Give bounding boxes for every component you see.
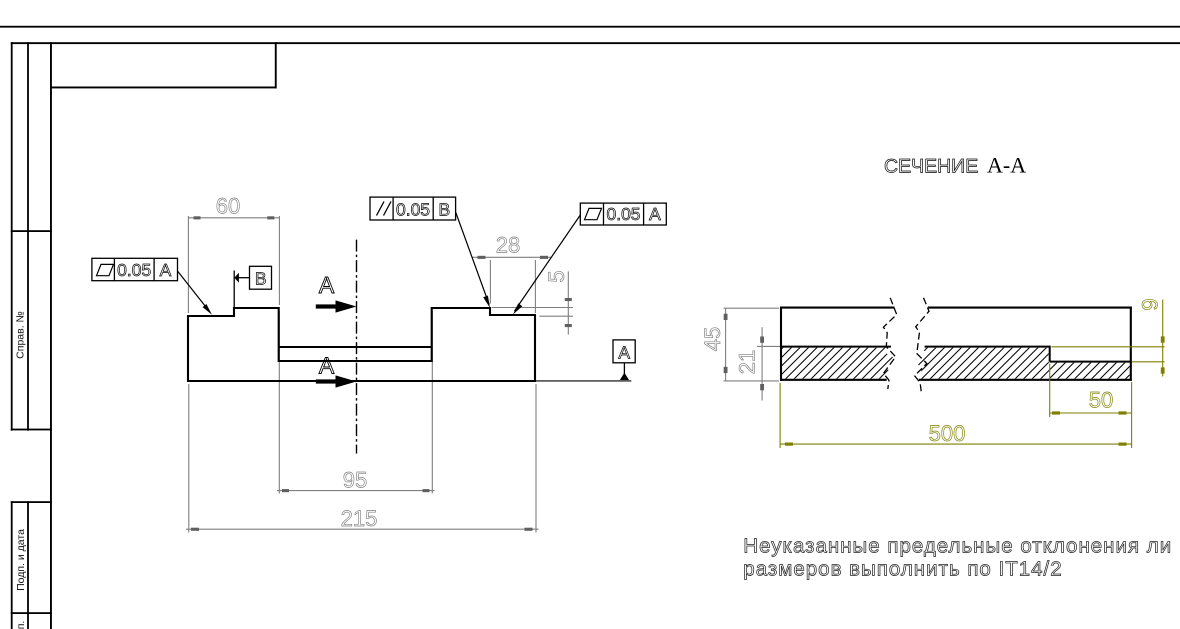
dimension 500 line <box>780 443 1132 445</box>
dimension 50 tick right <box>1119 411 1127 414</box>
part outline front view <box>188 308 535 381</box>
svg-text:60: 60 <box>216 194 240 219</box>
dimension 95 extension left <box>278 311 280 494</box>
margin vertical x=11.7 lower <box>11 501 13 629</box>
frame left vertical x=51 <box>50 42 52 629</box>
svg-text:А-А: А-А <box>987 153 1026 178</box>
svg-text:21: 21 <box>735 350 760 374</box>
dimension 60 extension left <box>187 216 189 313</box>
dimension 28 tick left <box>478 256 486 259</box>
dimension 50 extension left <box>1049 364 1051 417</box>
dimension 5 tick bottom <box>565 324 572 327</box>
section bar bottom line right <box>919 379 1132 381</box>
svg-text:Справ. №: Справ. № <box>15 311 27 359</box>
svg-text:5: 5 <box>544 270 569 282</box>
dimension 28 line <box>472 256 552 258</box>
dimension 50 tick left <box>1052 411 1060 414</box>
dimension 95 tick left <box>282 489 289 492</box>
dimension 45 tick bottom <box>724 367 728 373</box>
datum A box <box>613 340 635 363</box>
datum B vertical line <box>233 271 235 309</box>
dimension 215 tick right <box>525 528 533 531</box>
margin vertical x=28 upper <box>27 42 29 431</box>
dimension 215 line <box>186 528 539 530</box>
datum B triangle <box>234 273 239 283</box>
dimension 500 tick right <box>1119 443 1127 446</box>
svg-text:А: А <box>618 342 630 362</box>
dimension 60 tick left <box>194 216 201 219</box>
top-left stamp box bottom <box>50 87 277 89</box>
section arrow bottom stem <box>316 379 337 383</box>
left hatch region <box>782 348 894 379</box>
hatch top line right <box>925 346 1050 348</box>
break line right <box>915 298 929 392</box>
FCF flatness right box <box>580 203 666 225</box>
dimension 95 tick right <box>423 489 430 492</box>
svg-text:Подп. и дата: Подп. и дата <box>15 529 27 591</box>
break line left <box>883 298 896 389</box>
dimension 5 tick top <box>565 298 572 301</box>
section arrow top head <box>336 300 357 312</box>
section bar bottom line left <box>780 379 887 381</box>
dimension 28 extension right <box>534 260 536 313</box>
section bar top line left <box>780 307 895 309</box>
dimension 5 extension bottom <box>539 315 573 317</box>
section arrow bottom head <box>336 375 357 387</box>
datum A stem <box>623 363 625 374</box>
svg-text:размеров выполнить по IT14/2: размеров выполнить по IT14/2 <box>743 557 1062 580</box>
margin vertical x=11.7 upper <box>11 42 13 431</box>
dimension 60 line <box>188 217 279 219</box>
dimension 21 extension line <box>757 345 780 347</box>
dimension 50 extension right shared <box>1131 382 1133 448</box>
svg-text:A: A <box>160 260 172 280</box>
svg-text:B: B <box>255 269 267 289</box>
svg-text:9: 9 <box>1138 298 1163 310</box>
right hatch region <box>916 348 1130 379</box>
datum A baseline extension <box>535 380 631 382</box>
svg-text:А: А <box>319 272 335 298</box>
svg-text:0.05: 0.05 <box>606 204 640 224</box>
dimension 9 extension top <box>1052 346 1165 348</box>
margin divider y=613 <box>11 612 52 614</box>
svg-text:СЕЧЕНИЕ: СЕЧЕНИЕ <box>884 156 978 178</box>
svg-text:45: 45 <box>700 327 725 351</box>
dimension 21 tick bottom <box>760 384 764 390</box>
svg-text:Неуказанные предельные отклоне: Неуказанные предельные отклонения ли <box>743 534 1172 557</box>
dimension 9 tick top <box>1161 336 1165 342</box>
dimension 21 tick top <box>760 337 764 343</box>
groove inner edge line <box>279 346 432 348</box>
svg-text:500: 500 <box>929 421 966 446</box>
frame top border <box>11 42 1180 44</box>
FCF flatness left leader <box>178 271 210 311</box>
centerline section A-A <box>356 240 358 454</box>
datum A triangle <box>620 373 629 380</box>
svg-text:215: 215 <box>341 506 378 531</box>
dimension 28 tick right <box>540 256 548 259</box>
step vertical edge <box>1049 346 1051 362</box>
dimension 45 extension top <box>724 307 780 309</box>
svg-text:B: B <box>438 200 450 220</box>
dimension 21 line <box>761 327 763 400</box>
svg-text:28: 28 <box>496 233 520 258</box>
svg-text:95: 95 <box>343 468 367 493</box>
section bar right edge <box>1130 307 1132 381</box>
dimension 5 extension top <box>492 307 573 309</box>
dimension 60 tick right <box>267 216 274 219</box>
dimension 50 line <box>1050 412 1132 414</box>
datum B box <box>250 266 272 289</box>
top-left stamp box right edge <box>275 42 277 88</box>
margin divider y=429.5 <box>11 429 52 431</box>
dimension 60 extension right <box>278 216 280 305</box>
section bar top line right <box>928 307 1132 309</box>
dimension 500 tick left <box>785 443 793 446</box>
step lower edge <box>1050 361 1131 363</box>
dimension 9 extension bottom <box>1132 361 1165 363</box>
FCF flatness right leader <box>515 215 581 311</box>
margin vertical x=28 lower <box>27 501 29 629</box>
section bar left edge <box>780 307 782 381</box>
dimension 9 line <box>1162 300 1164 377</box>
svg-text:50: 50 <box>1089 388 1113 413</box>
svg-text:A: A <box>649 204 661 224</box>
FCF parallelism leader <box>456 213 489 305</box>
sheet top edge line <box>0 26 1180 28</box>
margin divider y=502 <box>11 501 52 503</box>
FCF parallelism box <box>370 197 456 220</box>
dimension 45 line <box>725 308 727 381</box>
dimension 9 tick bottom <box>1161 367 1165 373</box>
dimension 215 extension right <box>535 384 537 533</box>
dimension 45 extension bottom <box>724 380 780 382</box>
dimension 95 extension right <box>431 311 433 494</box>
svg-text:0.05: 0.05 <box>117 260 151 280</box>
dimension 215 tick left <box>191 528 199 531</box>
svg-text:п.: п. <box>15 621 27 629</box>
svg-text:А: А <box>319 353 335 379</box>
FCF flatness right leader arrow <box>513 303 522 314</box>
FCF parallelism leader arrow <box>483 296 490 309</box>
FCF flatness left leader arrow <box>203 304 212 315</box>
dimension 215 extension left <box>188 384 190 533</box>
dimension 5 line <box>567 271 569 334</box>
dimension 500 extension left <box>779 383 781 448</box>
dimension 95 line <box>277 490 435 492</box>
FCF flatness left box <box>92 258 178 280</box>
hatch top line left <box>780 346 891 348</box>
datum B stem <box>239 277 250 279</box>
dimension 28 extension left <box>489 260 491 304</box>
section arrow top stem <box>316 304 337 308</box>
margin divider y=231 <box>11 230 52 232</box>
dimension 45 tick top <box>724 314 728 320</box>
svg-text:0.05: 0.05 <box>396 199 430 219</box>
